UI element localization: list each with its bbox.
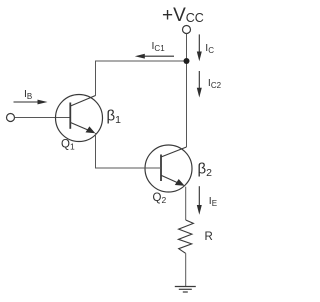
wire: Q1 emitter down (95, 133, 97, 168)
current arrow IE (197, 186, 202, 215)
resistor R (178, 220, 193, 253)
current arrow IB (14, 100, 48, 105)
wire: VCC rail down to Q2 collector (186, 34, 188, 147)
wire: across to Q2 base (95, 167, 161, 169)
wire: input to Q1 base (15, 117, 71, 119)
transistor Q2 (145, 145, 192, 192)
current arrow IC (197, 34, 202, 61)
current arrow IC1 (135, 54, 174, 59)
wire: top rail to VCC node (95, 60, 187, 62)
ground (175, 287, 196, 293)
current arrow IC2 (197, 71, 202, 98)
wire: Q1 collector up (95, 61, 97, 96)
wire: resistor to ground (185, 253, 187, 286)
transistor Q1 (56, 95, 103, 142)
node: collector junction (184, 58, 190, 64)
input terminal (7, 114, 15, 122)
wire: Q2 emitter down to resistor (185, 187, 187, 220)
supply terminal (183, 26, 191, 34)
svg-text:R: R (205, 231, 213, 243)
